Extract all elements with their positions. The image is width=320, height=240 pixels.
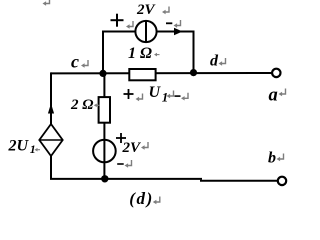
svg-text:(d): (d)	[129, 189, 154, 208]
svg-text:a: a	[269, 85, 278, 105]
svg-text:2U: 2U	[8, 138, 30, 155]
svg-text:d: d	[210, 53, 219, 70]
svg-text:2V: 2V	[122, 140, 143, 156]
svg-text:2V: 2V	[136, 2, 157, 18]
svg-text:1 Ω: 1 Ω	[128, 45, 152, 62]
svg-text:b: b	[268, 150, 276, 167]
svg-text:c: c	[71, 52, 79, 72]
svg-text:1: 1	[162, 89, 169, 104]
svg-text:1: 1	[30, 142, 36, 156]
svg-text:U: U	[149, 84, 162, 101]
svg-text:2 Ω: 2 Ω	[70, 97, 93, 113]
